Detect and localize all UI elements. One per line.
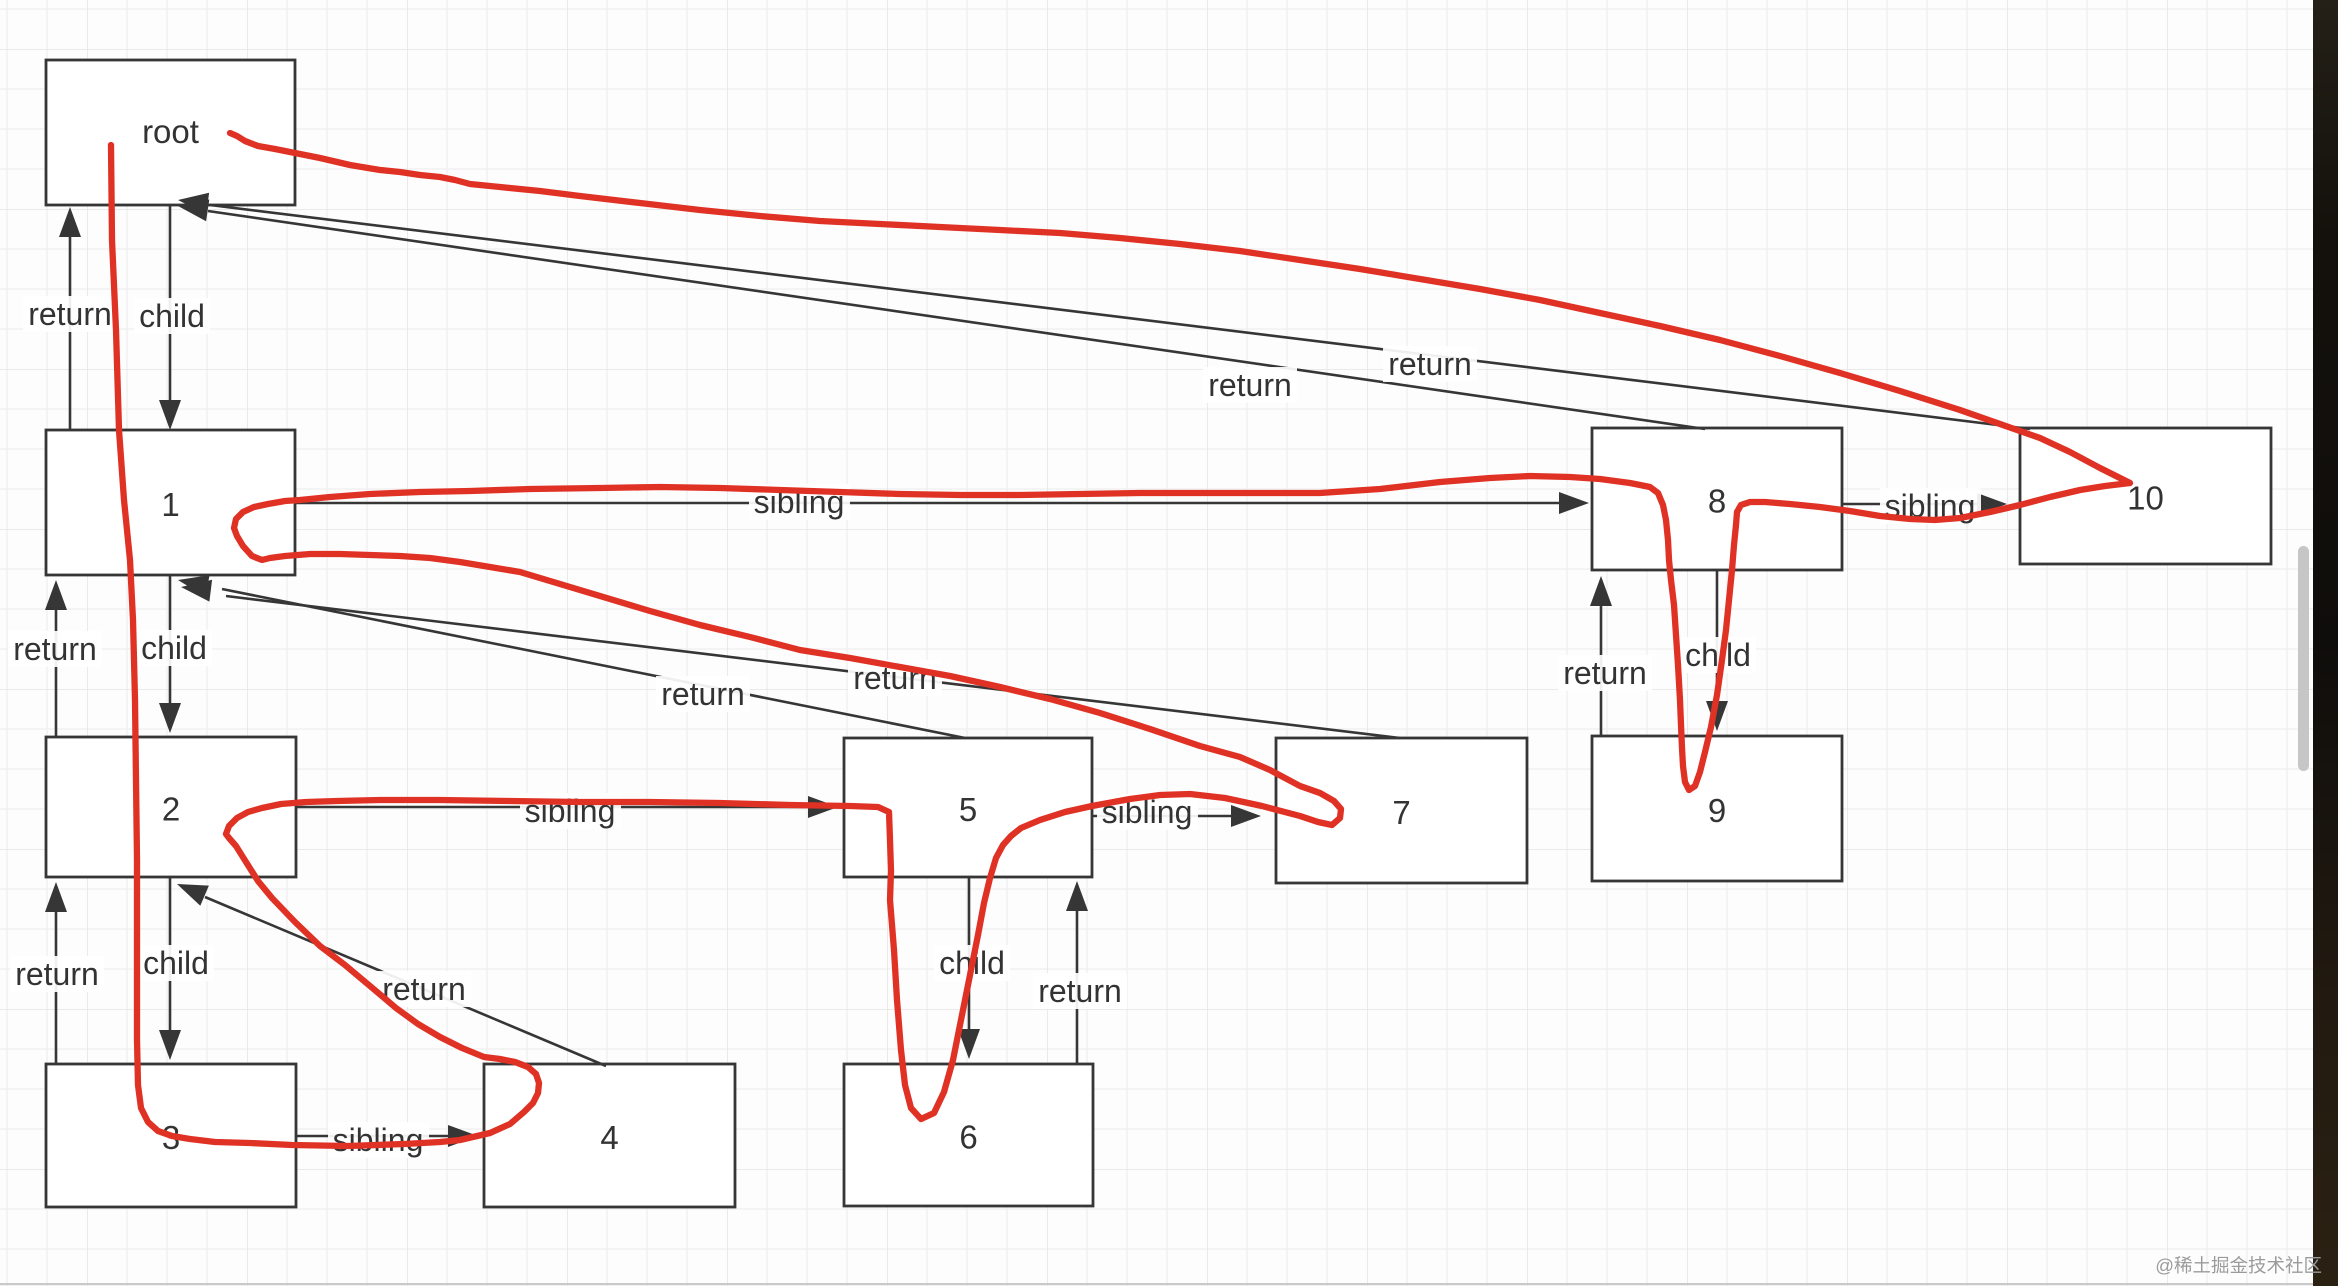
arrow sibling 8->10	[1842, 503, 1981, 506]
arrow return 5->1	[222, 589, 965, 738]
node 6	[844, 1064, 1093, 1206]
svg-text:5: 5	[959, 791, 977, 828]
label "return"	[656, 676, 750, 712]
red freehand traversal trace	[111, 133, 2130, 1146]
arrow child 1->2	[169, 575, 172, 707]
label "return"	[8, 631, 102, 667]
arrow return 10->root	[210, 205, 2030, 429]
arrow return 8->root	[208, 211, 1705, 429]
svg-text:10: 10	[2127, 480, 2164, 517]
svg-text:return: return	[1208, 367, 1292, 403]
node 1	[46, 430, 295, 575]
node 10	[2020, 428, 2271, 564]
label "sibling"	[1097, 794, 1198, 830]
svg-text:9: 9	[1708, 792, 1726, 829]
label "return"	[1033, 973, 1127, 1009]
svg-text:sibling: sibling	[333, 1122, 424, 1158]
label "child"	[134, 298, 210, 334]
svg-text:return: return	[15, 956, 99, 992]
arrow sibling 1->8	[295, 502, 1563, 505]
arrow return 7->1	[226, 596, 1400, 738]
node 3	[46, 1064, 296, 1207]
label "child"	[934, 945, 1010, 981]
svg-text:child: child	[143, 945, 209, 981]
label "return"	[848, 660, 942, 696]
svg-text:return: return	[661, 676, 745, 712]
label "child"	[136, 630, 212, 666]
arrow return 1->root	[69, 233, 72, 430]
label "return"	[377, 971, 471, 1007]
scrollbar thumb	[2298, 546, 2309, 771]
node 8	[1592, 428, 1842, 570]
label "sibling"	[1880, 488, 1981, 524]
arrow sibling 3->4	[296, 1135, 452, 1138]
svg-text:6: 6	[959, 1119, 977, 1156]
svg-text:return: return	[13, 631, 97, 667]
arrow child 8->9	[1716, 570, 1719, 705]
svg-text:return: return	[1388, 346, 1472, 382]
svg-text:@稀土掘金技术社区: @稀土掘金技术社区	[2155, 1255, 2322, 1276]
arrow return 9->8	[1600, 602, 1603, 736]
label "sibling"	[328, 1122, 429, 1158]
arrow return 3->2	[55, 908, 58, 1064]
svg-text:child: child	[141, 630, 207, 666]
label "return"	[10, 956, 104, 992]
svg-text:7: 7	[1392, 794, 1410, 831]
svg-text:return: return	[382, 971, 466, 1007]
node 7	[1276, 738, 1527, 883]
svg-text:2: 2	[162, 791, 180, 828]
label "sibling"	[520, 793, 621, 829]
svg-text:return: return	[1038, 973, 1122, 1009]
bottom page edge line	[0, 1283, 2313, 1285]
arrow return 4->2	[205, 897, 606, 1066]
arrow child 2->3	[169, 877, 172, 1034]
arrow sibling 5->7	[1092, 815, 1235, 818]
node 2	[46, 737, 296, 877]
svg-text:root: root	[142, 113, 199, 150]
label "return"	[1383, 346, 1477, 382]
svg-text:child: child	[139, 298, 205, 334]
node root	[46, 60, 295, 205]
label "return"	[23, 296, 117, 332]
arrow return 2->1	[55, 606, 58, 737]
svg-text:4: 4	[600, 1119, 618, 1156]
svg-text:8: 8	[1708, 483, 1726, 520]
node 5	[844, 738, 1092, 877]
arrow child root->1	[169, 205, 172, 404]
node 4	[484, 1064, 735, 1207]
label "return"	[1203, 367, 1297, 403]
arrow child 5->6	[968, 877, 971, 1033]
arrow sibling 2->5	[296, 806, 812, 809]
svg-text:1: 1	[161, 486, 179, 523]
label "return"	[1558, 655, 1652, 691]
label "sibling"	[749, 484, 850, 520]
node 9	[1592, 736, 1842, 881]
arrow return 6->5	[1076, 907, 1079, 1064]
label "child"	[138, 945, 214, 981]
label "child"	[1680, 637, 1756, 673]
svg-text:return: return	[1563, 655, 1647, 691]
svg-text:return: return	[28, 296, 112, 332]
